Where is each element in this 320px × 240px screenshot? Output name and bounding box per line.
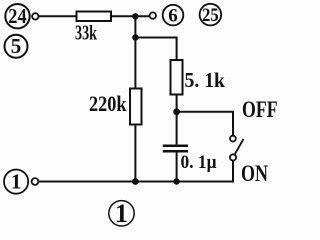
- switch S1 contact ON: [230, 154, 236, 160]
- svg-text:1: 1: [115, 199, 128, 228]
- wire bottom horizontal: [39, 181, 235, 183]
- pin label 24 circle: [5, 4, 29, 28]
- wire top horizontal: [39, 15, 151, 17]
- svg-text:24: 24: [8, 4, 27, 28]
- wire main vertical: [134, 16, 136, 181]
- resistor R 33k body: [77, 12, 112, 22]
- svg-text:6: 6: [168, 5, 178, 26]
- wire branch horizontal: [135, 37, 176, 39]
- svg-text:25: 25: [202, 5, 219, 26]
- junction dot top: [132, 13, 138, 19]
- pin label 5 circle: [5, 35, 28, 58]
- pin label 6 circle: [163, 5, 184, 26]
- svg-text:ON: ON: [241, 161, 268, 186]
- svg-text:OFF: OFF: [242, 97, 278, 122]
- switch S1 lever: [235, 139, 244, 155]
- svg-text:1: 1: [11, 170, 22, 194]
- junction dot bottom-main: [132, 178, 139, 185]
- capacitor C 0.1u plate bottom: [163, 150, 188, 153]
- svg-text:33k: 33k: [75, 21, 97, 45]
- svg-text:220k: 220k: [89, 91, 127, 116]
- pin label 1 circle: [4, 170, 28, 194]
- resistor R 220k body: [130, 89, 142, 125]
- wire switch top vertical: [232, 111, 234, 136]
- resistor R 5.1k body: [171, 60, 183, 95]
- junction dot bottom-right: [173, 178, 179, 184]
- wire right vertical upper: [176, 37, 178, 145]
- junction dot branch: [132, 34, 138, 40]
- terminal open circle 1: [32, 178, 39, 185]
- wire OFF horizontal: [177, 111, 233, 113]
- switch S1 contact OFF: [230, 136, 236, 142]
- svg-text:0. 1μ: 0. 1μ: [181, 152, 217, 173]
- figure number 1 circle: [109, 201, 134, 226]
- wire switch bottom vertical: [232, 160, 234, 182]
- wire right vertical lower: [176, 151, 178, 182]
- pin label 25 circle: [200, 4, 222, 26]
- junction dot mid-right: [173, 108, 180, 115]
- capacitor C 0.1u plate top: [163, 144, 188, 147]
- svg-text:5: 5: [11, 34, 22, 58]
- svg-text:5. 1k: 5. 1k: [185, 68, 226, 92]
- terminal open circle 6: [150, 12, 156, 18]
- terminal open circle 24: [32, 13, 38, 19]
